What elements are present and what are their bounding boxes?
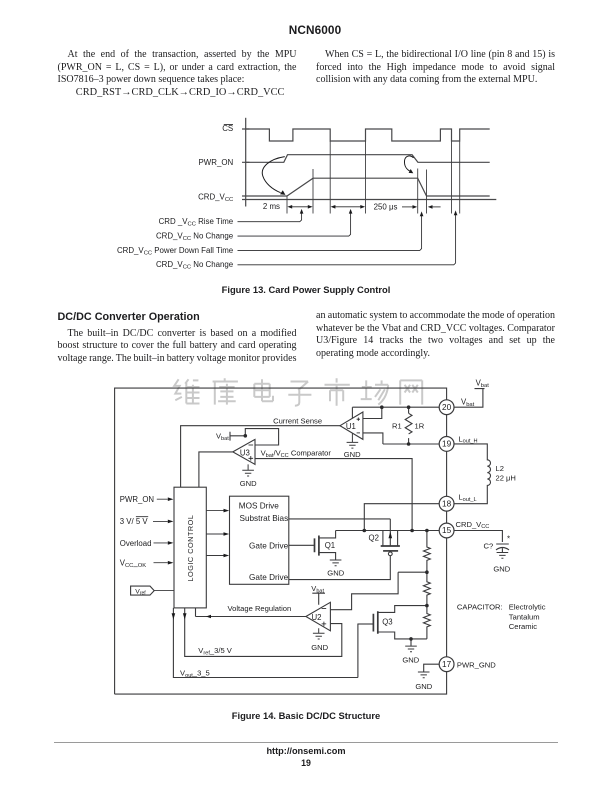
svg-text:20: 20 — [442, 403, 452, 412]
svg-text:Gate Drive: Gate Drive — [249, 573, 289, 582]
svg-text:R1: R1 — [392, 421, 402, 430]
svg-text:Vbat: Vbat — [311, 584, 324, 594]
svg-text:GND: GND — [327, 568, 344, 577]
svg-text:Lout_H: Lout_H — [458, 434, 477, 444]
svg-text:Vbat: Vbat — [216, 432, 229, 442]
svg-text:MOS Drive: MOS Drive — [239, 502, 279, 511]
svg-text:Voltage Regulation: Voltage Regulation — [228, 604, 292, 613]
svg-text:22 μH: 22 μH — [496, 474, 516, 483]
svg-text:Current Sense: Current Sense — [273, 416, 322, 425]
svg-text:Gate Drive: Gate Drive — [249, 542, 289, 551]
svg-text:GND: GND — [402, 656, 419, 665]
svg-text:Vout_3_5: Vout_3_5 — [180, 669, 210, 679]
svg-text:19: 19 — [442, 440, 452, 449]
svg-text:Electrolytic: Electrolytic — [509, 603, 546, 612]
svg-text:LOGIC CONTROL: LOGIC CONTROL — [186, 515, 195, 582]
svg-text:L2: L2 — [496, 464, 504, 473]
svg-text:U2: U2 — [312, 613, 322, 622]
svg-text:1R: 1R — [415, 421, 425, 430]
svg-text:Vbat/VCC Comparator: Vbat/VCC Comparator — [261, 448, 332, 458]
svg-text:3 V/ 5 V: 3 V/ 5 V — [120, 517, 149, 526]
svg-text:Overload: Overload — [120, 539, 152, 548]
svg-text:Vbat: Vbat — [461, 397, 475, 408]
svg-text:C?: C? — [484, 541, 494, 550]
svg-text:U1: U1 — [346, 422, 356, 431]
svg-text:Lout_L: Lout_L — [458, 493, 476, 503]
svg-text:*: * — [507, 535, 510, 544]
svg-text:CRD_VCC: CRD_VCC — [456, 520, 490, 530]
svg-text:Q2: Q2 — [369, 534, 379, 543]
svg-text:Vref_3/5 V: Vref_3/5 V — [198, 646, 232, 656]
svg-text:17: 17 — [442, 660, 452, 669]
svg-text:VCC_OK: VCC_OK — [120, 559, 146, 569]
svg-text:PWR_ON: PWR_ON — [120, 495, 154, 504]
svg-text:GND: GND — [415, 682, 432, 691]
svg-text:Ceramic: Ceramic — [509, 622, 537, 631]
svg-text:Q3: Q3 — [382, 617, 392, 626]
svg-text:PWR_GND: PWR_GND — [457, 660, 496, 669]
svg-text:Q1: Q1 — [325, 541, 335, 550]
svg-text:GND: GND — [311, 643, 328, 652]
svg-text:GND: GND — [493, 564, 510, 573]
svg-text:Vbat: Vbat — [476, 379, 490, 390]
svg-text:Substrat Bias: Substrat Bias — [239, 514, 288, 523]
svg-text:GND: GND — [240, 479, 257, 488]
svg-text:CAPACITOR:: CAPACITOR: — [457, 603, 503, 612]
svg-text:Tantalum: Tantalum — [509, 612, 540, 621]
svg-text:GND: GND — [344, 450, 361, 459]
svg-text:15: 15 — [442, 526, 452, 535]
svg-text:18: 18 — [442, 499, 452, 508]
svg-text:U3: U3 — [240, 448, 250, 457]
